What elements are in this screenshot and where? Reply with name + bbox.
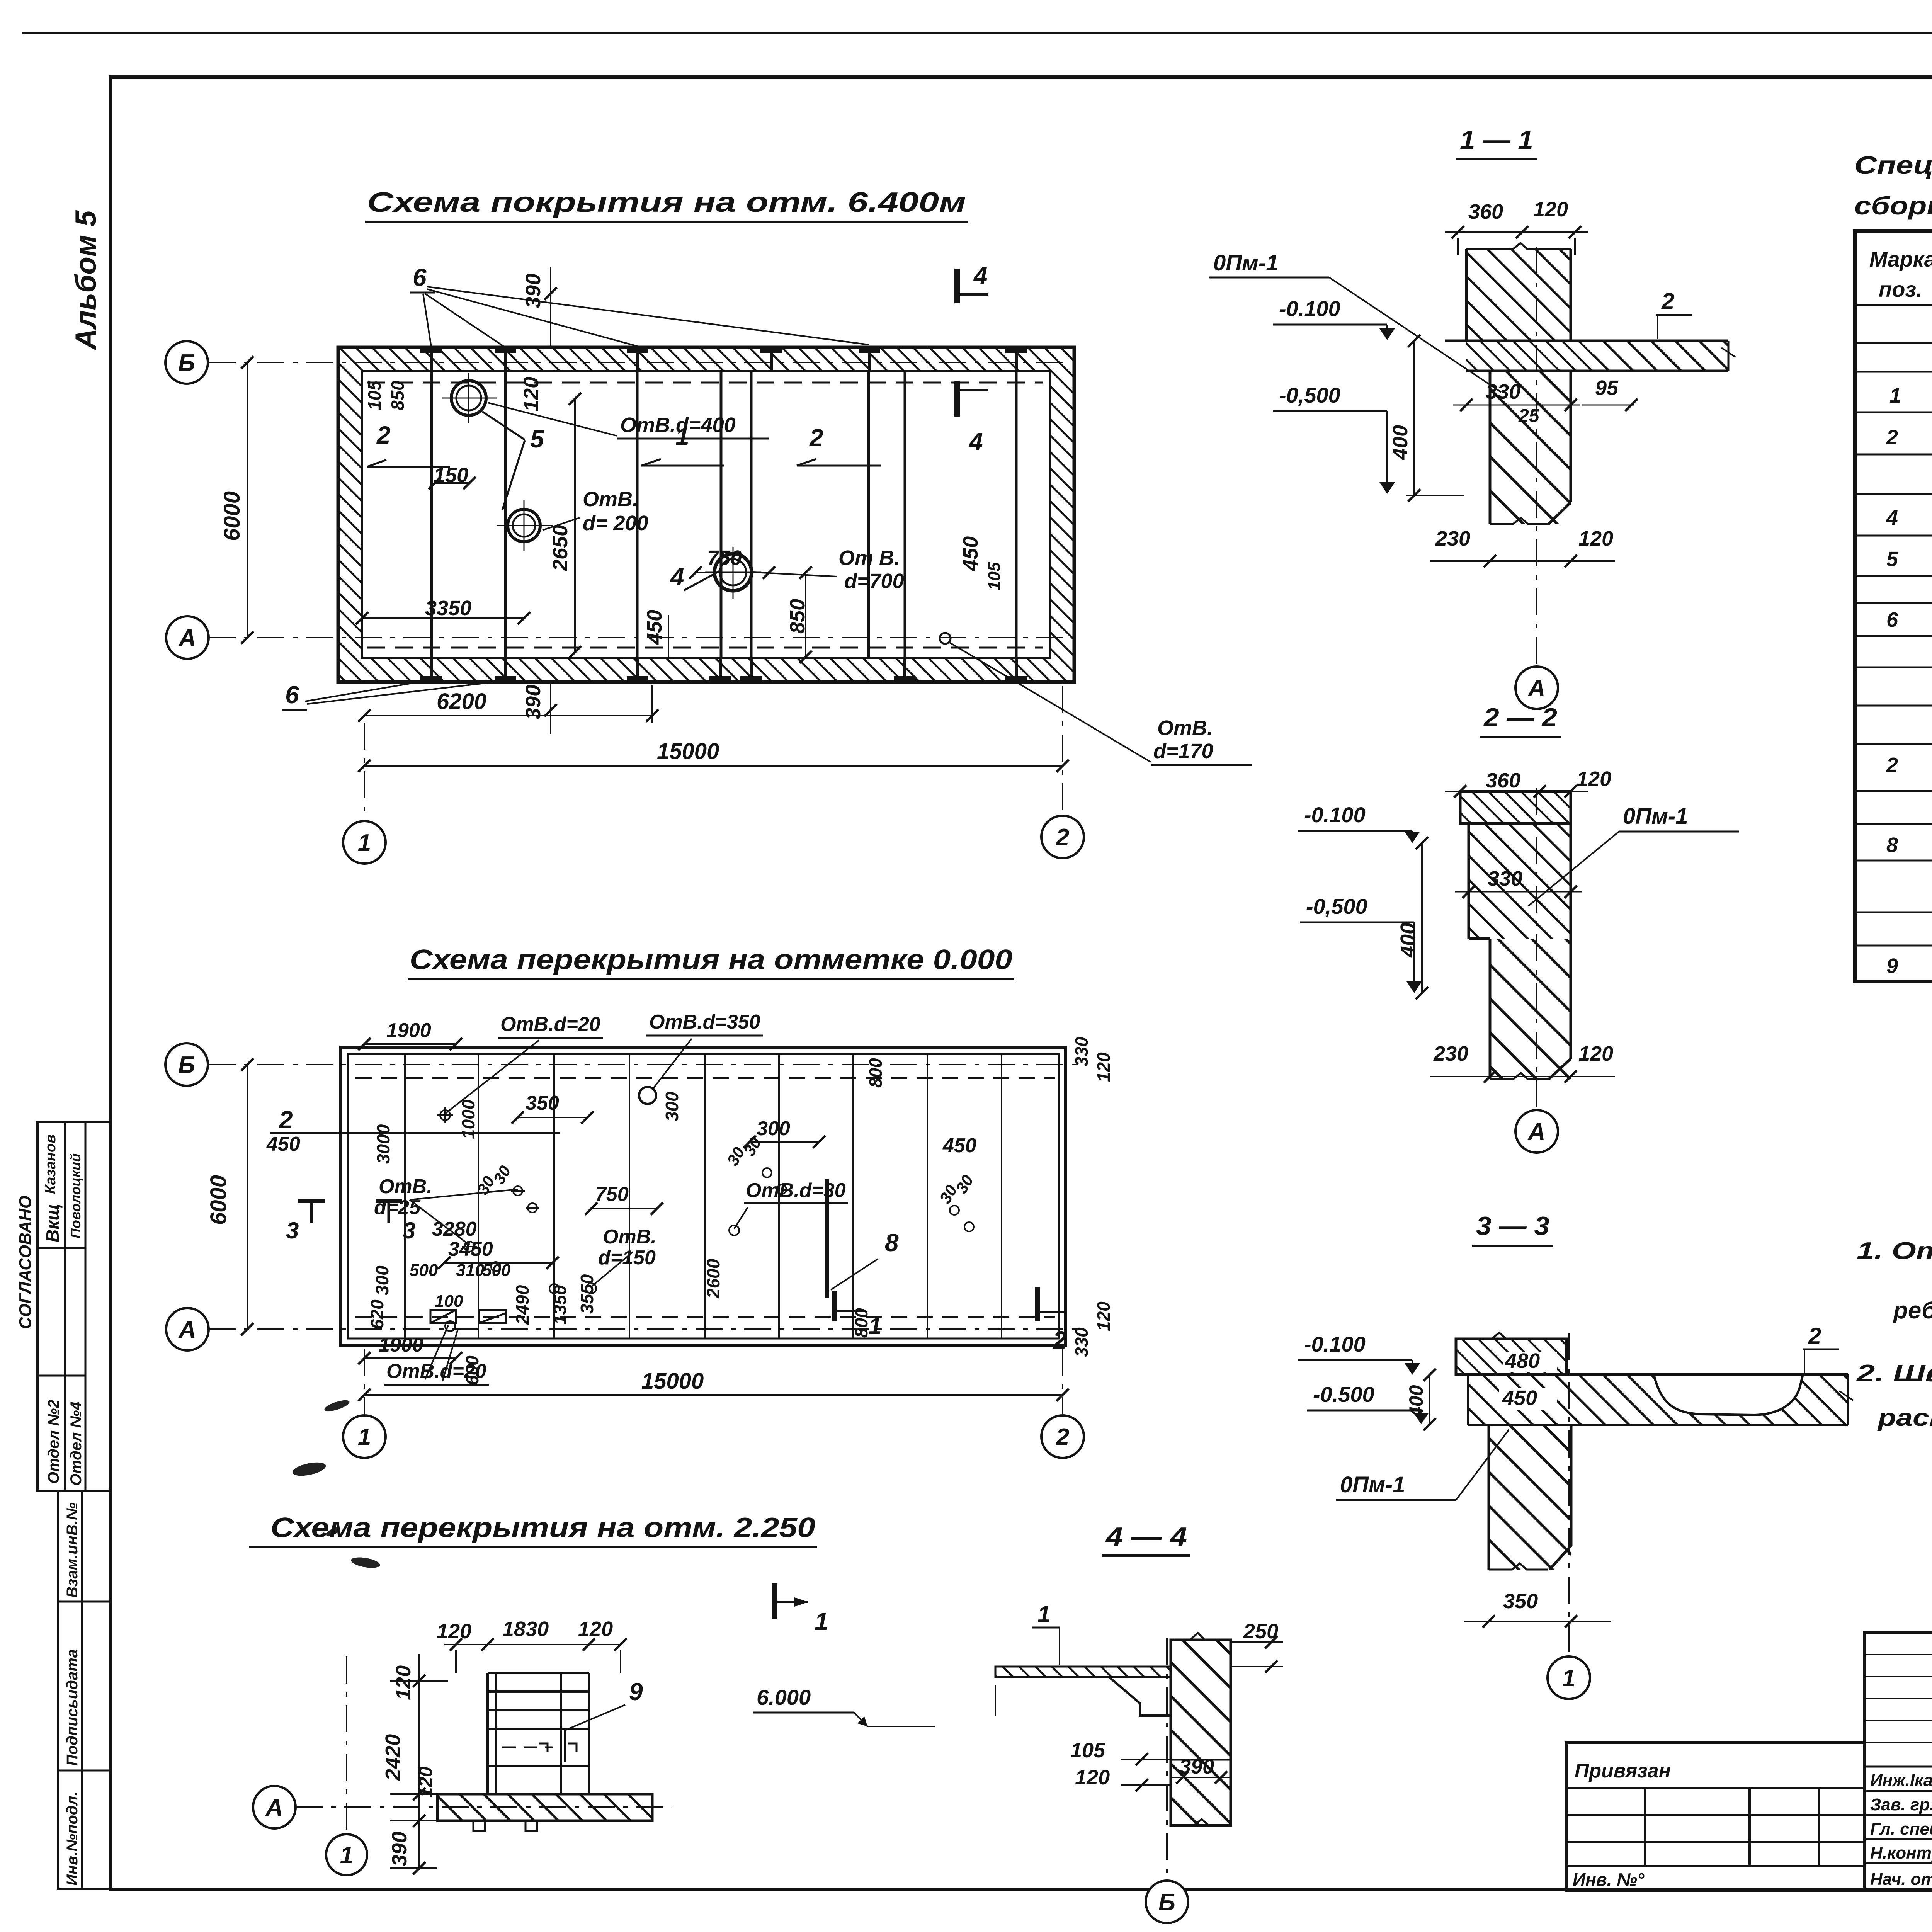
svg-text:400: 400 xyxy=(1405,1385,1427,1418)
svg-text:2420: 2420 xyxy=(381,1734,405,1781)
svg-text:-0,500: -0,500 xyxy=(1306,894,1367,918)
svg-text:раствором М200.: раствором М200. xyxy=(1877,1405,1932,1431)
svg-text:0Пм-1: 0Пм-1 xyxy=(1623,804,1688,829)
svg-text:ОтВ.: ОтВ. xyxy=(379,1175,432,1198)
svg-text:1000: 1000 xyxy=(458,1099,478,1139)
svg-text:1900: 1900 xyxy=(379,1334,423,1356)
svg-text:Подписьидата: Подписьидата xyxy=(64,1649,81,1766)
svg-text:А: А xyxy=(1527,675,1546,702)
svg-text:750: 750 xyxy=(595,1183,629,1206)
svg-text:А: А xyxy=(265,1794,283,1821)
svg-text:620: 620 xyxy=(367,1299,387,1329)
svg-text:1: 1 xyxy=(358,1424,371,1451)
svg-text:120: 120 xyxy=(1075,1766,1110,1789)
svg-text:Отдел №4: Отдел №4 xyxy=(68,1401,85,1486)
svg-text:2: 2 xyxy=(279,1106,293,1134)
svg-text:450: 450 xyxy=(1502,1386,1537,1410)
svg-text:4: 4 xyxy=(973,262,988,289)
svg-text:310: 310 xyxy=(456,1261,485,1280)
svg-text:2: 2 xyxy=(1886,753,1898,777)
svg-text:1: 1 xyxy=(1889,384,1901,407)
svg-text:95: 95 xyxy=(1595,376,1619,400)
svg-text:9: 9 xyxy=(1886,954,1898,978)
svg-text:8: 8 xyxy=(1886,833,1898,857)
svg-text:Нач. отд.: Нач. отд. xyxy=(1870,1870,1932,1889)
svg-text:6: 6 xyxy=(413,264,427,291)
svg-text:ОтВ.: ОтВ. xyxy=(603,1226,656,1248)
svg-text:-0.100: -0.100 xyxy=(1304,803,1366,827)
svg-text:120: 120 xyxy=(1578,527,1613,550)
svg-text:Отдел №2: Отдел №2 xyxy=(45,1400,62,1484)
svg-text:230: 230 xyxy=(1435,527,1470,550)
svg-text:450: 450 xyxy=(959,536,982,571)
svg-text:300: 300 xyxy=(662,1092,682,1121)
svg-text:800: 800 xyxy=(866,1058,886,1088)
svg-text:0Пм-1: 0Пм-1 xyxy=(1340,1472,1405,1497)
svg-text:4: 4 xyxy=(670,563,684,591)
svg-text:ОтВ.d=350: ОтВ.d=350 xyxy=(649,1011,760,1033)
svg-text:390: 390 xyxy=(1179,1755,1214,1778)
svg-text:500: 500 xyxy=(410,1261,438,1280)
svg-text:2: 2 xyxy=(376,421,391,449)
svg-text:8: 8 xyxy=(885,1229,899,1257)
svg-text:Казанов: Казанов xyxy=(43,1134,59,1194)
svg-text:d=700: d=700 xyxy=(844,570,904,593)
svg-text:390: 390 xyxy=(388,1832,411,1866)
svg-text:450: 450 xyxy=(643,610,666,645)
svg-text:Альбом 5: Альбом 5 xyxy=(70,210,102,350)
svg-text:3: 3 xyxy=(286,1218,299,1243)
svg-text:1 — 1: 1 — 1 xyxy=(1460,125,1533,155)
svg-text:А: А xyxy=(178,1316,196,1343)
svg-text:5: 5 xyxy=(530,425,544,453)
svg-text:Б: Б xyxy=(178,350,195,376)
svg-text:350: 350 xyxy=(1503,1590,1538,1613)
svg-text:3 — 3: 3 — 3 xyxy=(1476,1211,1549,1241)
svg-text:2: 2 xyxy=(1886,426,1898,449)
svg-text:ОтВ.d=30: ОтВ.d=30 xyxy=(746,1179,846,1202)
svg-text:6: 6 xyxy=(1886,608,1898,631)
svg-text:6: 6 xyxy=(285,681,299,709)
svg-text:120: 120 xyxy=(1094,1052,1114,1082)
svg-text:390: 390 xyxy=(522,685,545,719)
svg-text:330: 330 xyxy=(1071,1327,1092,1357)
svg-text:105: 105 xyxy=(985,562,1004,590)
svg-text:Схема перекрытия на отм. 2.250: Схема перекрытия на отм. 2.250 xyxy=(270,1512,815,1543)
svg-text:390: 390 xyxy=(522,274,545,308)
svg-text:2650: 2650 xyxy=(549,525,572,571)
svg-text:-0.100: -0.100 xyxy=(1279,296,1340,321)
svg-text:d= 200: d= 200 xyxy=(583,512,648,535)
svg-text:120: 120 xyxy=(1533,198,1568,221)
svg-text:15000: 15000 xyxy=(657,739,719,764)
svg-text:450: 450 xyxy=(942,1134,976,1157)
svg-text:А: А xyxy=(178,625,196,651)
svg-text:3350: 3350 xyxy=(425,597,471,620)
svg-text:Гл. спец.: Гл. спец. xyxy=(1870,1820,1932,1838)
svg-text:6000: 6000 xyxy=(206,1175,231,1225)
svg-text:0Пм-1: 0Пм-1 xyxy=(1213,250,1278,276)
svg-text:Инв. №°: Инв. №° xyxy=(1573,1869,1645,1889)
svg-text:1: 1 xyxy=(815,1607,828,1635)
svg-text:9: 9 xyxy=(629,1678,643,1706)
svg-text:Привязан: Привязан xyxy=(1575,1760,1671,1782)
svg-text:250: 250 xyxy=(1243,1620,1278,1643)
svg-text:450: 450 xyxy=(266,1133,300,1155)
svg-text:ОтВ.: ОтВ. xyxy=(1157,716,1213,740)
svg-text:2600: 2600 xyxy=(703,1259,723,1299)
svg-text:Взам.инВ.№: Взам.инВ.№ xyxy=(64,1502,81,1598)
svg-text:120: 120 xyxy=(416,1767,436,1798)
svg-text:4: 4 xyxy=(968,428,983,456)
svg-text:1: 1 xyxy=(358,830,371,856)
svg-text:-0,500: -0,500 xyxy=(1279,383,1340,407)
svg-text:поз.: поз. xyxy=(1879,277,1922,301)
svg-text:360: 360 xyxy=(1468,200,1503,223)
svg-text:Б: Б xyxy=(178,1052,195,1078)
svg-text:2: 2 xyxy=(1808,1323,1821,1349)
svg-text:2 — 2: 2 — 2 xyxy=(1483,703,1557,732)
svg-text:330: 330 xyxy=(1486,380,1520,403)
svg-text:350: 350 xyxy=(526,1092,559,1114)
svg-text:1: 1 xyxy=(869,1313,881,1339)
svg-text:750: 750 xyxy=(707,546,742,570)
svg-text:120: 120 xyxy=(578,1617,613,1641)
svg-text:2490: 2490 xyxy=(512,1285,532,1325)
svg-text:100: 100 xyxy=(435,1292,463,1311)
svg-text:1: 1 xyxy=(1037,1601,1050,1627)
svg-text:2: 2 xyxy=(1056,1424,1069,1451)
svg-text:2: 2 xyxy=(1056,824,1069,851)
svg-text:230: 230 xyxy=(1433,1042,1468,1065)
svg-text:Схема перекрытия на отметке 0.: Схема перекрытия на отметке 0.000 xyxy=(410,944,1012,975)
svg-text:5: 5 xyxy=(1886,548,1898,571)
svg-text:300: 300 xyxy=(757,1117,790,1140)
svg-text:400: 400 xyxy=(1396,923,1420,958)
svg-text:СОГЛАСОВАНО: СОГЛАСОВАНО xyxy=(16,1196,35,1329)
svg-text:Поволоцкий: Поволоцкий xyxy=(68,1153,83,1238)
svg-text:480: 480 xyxy=(1505,1349,1540,1372)
svg-text:500: 500 xyxy=(482,1261,511,1280)
svg-text:120: 120 xyxy=(1578,1042,1613,1065)
svg-text:600: 600 xyxy=(462,1355,482,1385)
svg-text:1: 1 xyxy=(675,423,689,451)
svg-text:360: 360 xyxy=(1486,769,1520,792)
svg-text:3: 3 xyxy=(403,1218,415,1243)
svg-text:850: 850 xyxy=(388,381,408,410)
svg-text:2. Швы между плитами заделать: 2. Швы между плитами заделать цементным xyxy=(1856,1360,1932,1387)
svg-text:ОтВ.: ОтВ. xyxy=(583,488,638,511)
svg-text:-0.500: -0.500 xyxy=(1313,1382,1374,1406)
svg-text:3000: 3000 xyxy=(373,1124,393,1164)
svg-text:2: 2 xyxy=(809,424,823,452)
svg-text:6000: 6000 xyxy=(219,491,245,541)
svg-text:4 — 4: 4 — 4 xyxy=(1105,1522,1187,1551)
svg-text:400: 400 xyxy=(1389,425,1412,460)
svg-text:6.000: 6.000 xyxy=(757,1685,811,1709)
svg-text:1: 1 xyxy=(1562,1665,1575,1692)
svg-text:1830: 1830 xyxy=(502,1617,549,1641)
svg-text:105: 105 xyxy=(1070,1739,1105,1762)
svg-text:120: 120 xyxy=(520,377,543,412)
svg-text:Марка: Марка xyxy=(1869,247,1932,271)
svg-text:1. Отверстия в плитах пробиват: 1. Отверстия в плитах пробивать без нару… xyxy=(1857,1238,1932,1264)
svg-text:120: 120 xyxy=(1094,1301,1114,1331)
svg-text:ребер.: ребер. xyxy=(1893,1297,1932,1324)
svg-text:Спецификация к схемам располож: Спецификация к схемам расположения элеме… xyxy=(1854,151,1932,179)
svg-text:2: 2 xyxy=(1053,1326,1067,1354)
svg-text:Н.контр.: Н.контр. xyxy=(1870,1844,1932,1862)
svg-text:Инв.№подл.: Инв.№подл. xyxy=(64,1791,81,1886)
svg-text:330: 330 xyxy=(1071,1037,1092,1066)
svg-text:4: 4 xyxy=(1886,506,1898,529)
svg-text:120: 120 xyxy=(1577,767,1611,791)
svg-text:А: А xyxy=(1527,1119,1546,1145)
svg-text:-0.100: -0.100 xyxy=(1304,1332,1366,1356)
svg-text:От В.: От В. xyxy=(838,546,900,570)
svg-text:330: 330 xyxy=(1488,867,1522,890)
svg-text:1350: 1350 xyxy=(550,1285,570,1325)
svg-text:Схема покрытия на отм. 6.400м: Схема покрытия на отм. 6.400м xyxy=(367,187,966,218)
svg-text:1900: 1900 xyxy=(386,1019,431,1042)
svg-text:105: 105 xyxy=(364,380,384,410)
svg-text:3550: 3550 xyxy=(577,1274,597,1314)
svg-text:Б: Б xyxy=(1158,1889,1175,1916)
svg-text:Инж.Iкат: Инж.Iкат xyxy=(1870,1771,1932,1790)
svg-text:Вкщ: Вкщ xyxy=(43,1204,63,1242)
svg-text:120: 120 xyxy=(437,1620,471,1643)
svg-text:ОтВ.d=20: ОтВ.d=20 xyxy=(500,1013,600,1036)
svg-text:2: 2 xyxy=(1661,288,1674,314)
svg-text:сборной конструкции покрытия и: сборной конструкции покрытия и перекрыти… xyxy=(1854,191,1932,220)
svg-text:6200: 6200 xyxy=(437,689,486,714)
svg-text:300: 300 xyxy=(372,1265,392,1295)
svg-text:120: 120 xyxy=(392,1665,415,1700)
svg-text:Зав. гр.: Зав. гр. xyxy=(1870,1795,1932,1814)
svg-text:15000: 15000 xyxy=(641,1369,704,1394)
svg-text:1: 1 xyxy=(340,1842,353,1869)
svg-text:d=170: d=170 xyxy=(1153,740,1213,763)
